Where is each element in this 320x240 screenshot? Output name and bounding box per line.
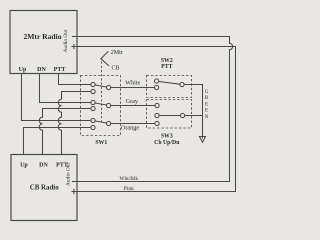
mechanical linkage SW1 (dashed) xyxy=(101,62,103,125)
switch SW2 common xyxy=(180,82,184,86)
wire CB PTT to SW1 row1 bottom contact (hops 4 wires) xyxy=(58,92,91,155)
svg-text:PTT: PTT xyxy=(56,163,68,169)
CB Radio box U2 xyxy=(11,155,77,221)
svg-text:SW3: SW3 xyxy=(161,133,173,139)
wire 2Mtr audio plus (Pink loop) xyxy=(77,47,236,192)
switch SW2 contacts xyxy=(155,79,159,83)
switch SW1 pole 1 common xyxy=(107,85,111,89)
svg-text:2Mtr: 2Mtr xyxy=(111,50,123,56)
svg-text:Pink: Pink xyxy=(124,186,134,192)
terminal plus 2Mtr audio xyxy=(71,44,76,49)
wire 2Mtr audio minus (Wht/Blk loop) xyxy=(77,37,233,182)
switch SW1 dashed enclosure xyxy=(81,76,121,136)
switch SW1 pole 3 lever xyxy=(95,121,106,123)
switch SW2 dashed enclosure xyxy=(147,76,192,98)
svg-text:2Mtr Radio: 2Mtr Radio xyxy=(23,32,61,41)
wire Green branch from SW3 pole xyxy=(185,115,203,117)
wire CB DN to SW1 row2 bottom contact (hops 2 wires) xyxy=(39,109,91,155)
svg-text:CB Radio: CB Radio xyxy=(30,185,59,192)
wire Gray: SW1 pole2 to SW3 xyxy=(111,105,155,107)
terminal minus 2Mtr audio xyxy=(72,36,77,38)
svg-text:Up: Up xyxy=(19,67,27,73)
wire Green from SW2 pole xyxy=(184,85,202,139)
selector position symbol 2Mtr/CB xyxy=(101,51,109,66)
svg-text:SW1: SW1 xyxy=(95,140,107,146)
svg-text:Up: Up xyxy=(20,163,28,169)
svg-text:E: E xyxy=(205,109,208,114)
switch SW3 contacts xyxy=(155,103,159,107)
wire 2Mtr Up to SW1 row3 top contact xyxy=(22,73,91,121)
svg-text:DN: DN xyxy=(39,163,48,169)
svg-text:Gray: Gray xyxy=(126,98,139,105)
switch SW1 pole 2 contacts xyxy=(91,100,95,104)
svg-text:E: E xyxy=(205,102,208,107)
switch SW1 pole 2 common xyxy=(107,103,111,107)
switch SW2 lever xyxy=(159,82,180,85)
switch SW3 lever xyxy=(159,115,180,117)
switch SW1 pole 1 contacts xyxy=(91,82,95,86)
wire White: SW1 pole1 to SW2 xyxy=(111,87,155,89)
wire Orange: SW1 pole3 to SW3 xyxy=(111,123,155,125)
svg-text:DN: DN xyxy=(37,67,46,73)
svg-text:PTT: PTT xyxy=(161,64,172,70)
svg-text:PTT: PTT xyxy=(54,67,66,73)
wire 2Mtr PTT to SW1 top contact xyxy=(59,73,91,85)
svg-text:Wht/Blk: Wht/Blk xyxy=(120,176,139,182)
wire 2Mtr DN to SW1 row2 top contact xyxy=(40,73,91,103)
svg-text:Audio Out: Audio Out xyxy=(63,29,69,52)
svg-text:White: White xyxy=(125,79,140,86)
2Mtr Radio box U1 xyxy=(10,11,77,74)
switch SW1 pole 3 common xyxy=(107,121,111,125)
switch SW1 pole 2 lever xyxy=(95,103,106,105)
terminal minus CB audio xyxy=(72,181,77,183)
svg-text:Orange: Orange xyxy=(121,124,139,131)
switch SW1 pole 3 contacts xyxy=(91,118,95,122)
svg-text:G: G xyxy=(205,90,209,95)
wire CB Up to SW1 row3 bottom contact xyxy=(24,128,91,155)
switch SW1 pole 1 lever xyxy=(95,85,106,87)
arrowhead Green wire xyxy=(200,137,206,143)
terminal plus CB audio xyxy=(71,189,76,194)
svg-text:N: N xyxy=(205,115,209,120)
svg-text:Ch Up/Dn: Ch Up/Dn xyxy=(154,140,180,146)
switch SW3 dashed enclosure xyxy=(147,100,192,129)
switch SW3 common xyxy=(181,113,185,117)
svg-text:CB: CB xyxy=(112,65,120,71)
svg-text:SW2: SW2 xyxy=(161,58,173,64)
